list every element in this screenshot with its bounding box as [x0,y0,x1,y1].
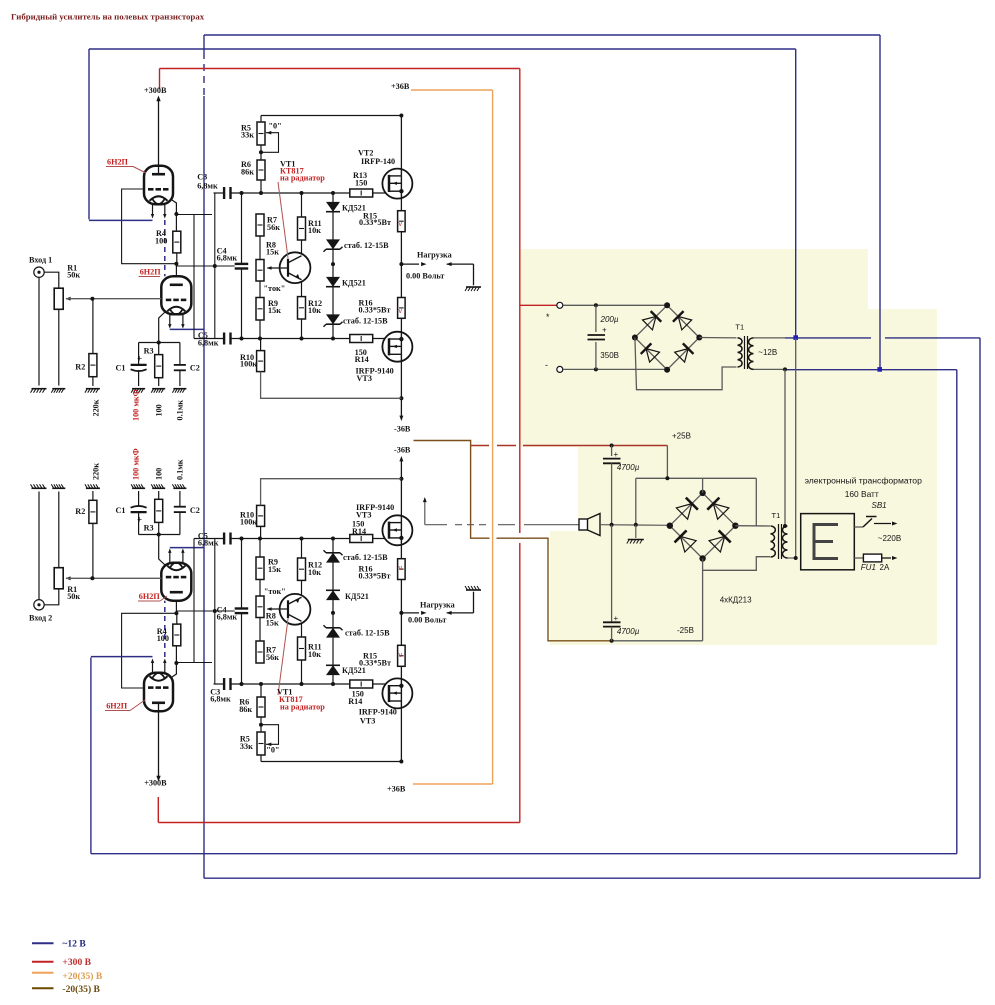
svg-text:0.33*5Вт: 0.33*5Вт [359,218,391,227]
svg-text:6Н2П: 6Н2П [140,268,162,277]
svg-text:0.33*5Вт: 0.33*5Вт [359,306,391,315]
svg-text:6,8мк: 6,8мк [217,613,238,622]
svg-text:100к: 100к [240,360,257,369]
svg-text:VT3: VT3 [357,374,372,383]
svg-text:15к: 15к [268,565,281,574]
svg-text:R14: R14 [352,527,366,536]
svg-text:+36В: +36В [391,82,410,91]
svg-text:6,8мк: 6,8мк [197,182,218,191]
svg-text:33к: 33к [240,742,253,751]
svg-text:Вход 1: Вход 1 [29,256,52,265]
svg-text:электронный трансформатор: электронный трансформатор [805,476,922,486]
svg-text:-25В: -25В [677,626,694,635]
svg-text:Нагрузка: Нагрузка [420,601,455,610]
svg-text:стаб. 12-15В: стаб. 12-15В [344,241,389,250]
svg-text:+300 В: +300 В [62,957,91,968]
svg-text:86к: 86к [241,168,254,177]
svg-text:100: 100 [157,634,169,643]
svg-text:T1: T1 [735,322,744,331]
svg-text:0.00 Вольт: 0.00 Вольт [406,272,444,281]
svg-text:4хКД213: 4хКД213 [720,595,752,604]
svg-text:v: v [399,308,403,315]
svg-text:+: + [602,326,607,335]
svg-text:+: + [614,450,619,459]
svg-text:стаб. 12-15В: стаб. 12-15В [343,317,388,326]
svg-text:6,8мк: 6,8мк [217,254,238,263]
svg-text:R3: R3 [144,524,154,533]
svg-text:R2: R2 [75,507,85,516]
svg-text:R14: R14 [348,697,362,706]
svg-text:6,8мк: 6,8мк [198,539,219,548]
svg-text:10к: 10к [308,306,321,315]
svg-text:200µ: 200µ [600,315,619,324]
svg-text:0.00 Вольт: 0.00 Вольт [408,616,446,625]
svg-text:220к: 220к [92,399,101,416]
svg-text:+36В: +36В [387,785,406,794]
svg-text:150: 150 [355,179,367,188]
svg-text:+300В: +300В [144,779,167,788]
svg-text:~12 В: ~12 В [62,939,86,950]
svg-text:220к: 220к [92,463,101,480]
svg-text:-36В: -36В [394,446,411,455]
svg-text:+25В: +25В [672,432,691,441]
svg-text:-20(35) В: -20(35) В [62,984,100,995]
svg-text:+20(35) В: +20(35) В [62,971,102,982]
svg-text:IRFP-9140: IRFP-9140 [359,708,397,717]
svg-text:C2: C2 [190,364,200,373]
svg-text:Вход 2: Вход 2 [29,614,52,623]
svg-text:C1: C1 [116,364,126,373]
svg-text:4700µ: 4700µ [617,463,640,472]
svg-text:56к: 56к [266,653,279,662]
svg-text:15к: 15к [266,248,279,257]
svg-text:0.33*5Вт: 0.33*5Вт [359,572,391,581]
svg-text:0.1мк: 0.1мк [176,400,185,421]
svg-text:на радиатор: на радиатор [280,703,325,712]
svg-text:Нагрузка: Нагрузка [417,251,452,260]
svg-text:"0": "0" [266,746,279,755]
svg-text:100: 100 [155,468,164,480]
svg-text:6Н2П: 6Н2П [106,702,128,711]
svg-text:33к: 33к [241,131,254,140]
svg-text:350В: 350В [600,351,619,360]
svg-text:6Н2П: 6Н2П [107,158,129,167]
svg-text:50к: 50к [67,592,80,601]
svg-text:10к: 10к [308,650,321,659]
svg-text:v: v [399,565,403,572]
svg-text:"ток": "ток" [264,587,286,596]
svg-text:+300В: +300В [144,86,167,95]
svg-text:IRFP-140: IRFP-140 [361,157,395,166]
svg-text:6,8мк: 6,8мк [210,695,231,704]
svg-text:Гибридный усилитель на полевых: Гибридный усилитель на полевых транзисто… [11,12,205,22]
svg-text:на радиатор: на радиатор [280,174,325,183]
svg-text:+: + [614,614,619,623]
svg-text:VT3: VT3 [360,717,375,726]
svg-text:"ток": "ток" [264,284,286,293]
svg-text:КД521: КД521 [342,279,366,288]
svg-text:T1: T1 [772,511,781,520]
svg-text:v: v [399,221,403,228]
svg-text:FU1: FU1 [861,563,876,572]
svg-text:R2: R2 [75,363,85,372]
svg-text:R3: R3 [144,347,154,356]
svg-text:10к: 10к [308,226,321,235]
svg-text:10к: 10к [308,568,321,577]
svg-text:0.1мк: 0.1мк [176,459,185,480]
svg-text:C1: C1 [116,506,126,515]
svg-text:100к: 100к [240,518,257,527]
svg-text:4700µ: 4700µ [617,627,640,636]
svg-text:"0": "0" [269,122,282,131]
svg-text:R14: R14 [355,355,369,364]
svg-text:6Н2П: 6Н2П [139,592,161,601]
svg-text:~12В: ~12В [758,348,777,357]
svg-text:56к: 56к [267,223,280,232]
svg-text:VT3: VT3 [356,511,371,520]
svg-text:100 мкФ: 100 мкФ [131,389,140,421]
svg-text:C3: C3 [197,173,207,182]
svg-text:C2: C2 [190,506,200,515]
svg-text:100 мкФ: 100 мкФ [131,448,140,480]
svg-text:86к: 86к [239,705,252,714]
svg-text:0.33*5Вт: 0.33*5Вт [359,659,391,668]
svg-text:стаб. 12-15В: стаб. 12-15В [343,553,388,562]
svg-text:160 Ватт: 160 Ватт [845,489,879,499]
svg-text:-36В: -36В [394,425,411,434]
svg-text:v: v [399,652,403,659]
svg-text:SB1: SB1 [872,501,887,510]
svg-text:2А: 2А [880,563,890,572]
svg-text:+: + [137,354,142,364]
svg-text:50к: 50к [67,271,80,280]
svg-text:*: * [546,312,550,322]
svg-text:15к: 15к [268,306,281,315]
svg-text:стаб. 12-15В: стаб. 12-15В [345,629,390,638]
svg-text:6,8мк: 6,8мк [198,339,219,348]
svg-text:КД521: КД521 [345,592,369,601]
svg-text:~220В: ~220В [878,534,901,543]
svg-text:100: 100 [155,237,167,246]
svg-text:+: + [137,514,142,524]
svg-text:100: 100 [155,404,164,416]
svg-text:-: - [545,360,548,370]
svg-text:15к: 15к [266,619,279,628]
